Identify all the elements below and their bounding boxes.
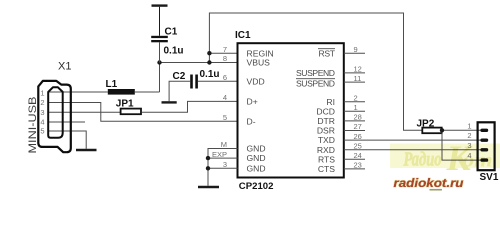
svg-text:D+: D+ [247, 97, 258, 107]
SV1 pad 2 [480, 139, 488, 142]
connector X1 inner cavity [48, 87, 63, 138]
svg-text:4: 4 [223, 93, 227, 102]
wire USB pin1 to L1 [49, 91, 108, 93]
watermark Radio Kot band [390, 138, 500, 178]
svg-text:D-: D- [247, 116, 256, 126]
svg-text:M: M [221, 140, 227, 149]
ground top (above C1) [152, 6, 168, 36]
svg-text:2: 2 [354, 94, 358, 103]
pin 23 stub [344, 168, 365, 170]
svg-text:C1: C1 [165, 27, 178, 38]
svg-text:23: 23 [354, 161, 362, 170]
pin 9 stub [344, 52, 365, 54]
svg-text:5: 5 [223, 113, 227, 122]
svg-text:DTR: DTR [317, 116, 335, 126]
svg-text:VDD: VDD [247, 76, 265, 86]
svg-text:28: 28 [354, 113, 362, 122]
svg-text:1: 1 [467, 121, 471, 130]
pin 12 stub [344, 72, 365, 74]
svg-text:IC1: IC1 [235, 30, 251, 41]
ground at USB pin5 [76, 149, 97, 151]
SV1 pad 1 [480, 129, 488, 132]
wire USB pin3 to JP1 [49, 111, 120, 113]
inductor L1 [108, 89, 135, 95]
svg-text:CP2102: CP2102 [239, 181, 274, 192]
wire C1 bottom to rail [159, 42, 161, 62]
svg-text:2: 2 [40, 98, 44, 107]
wire TXD pin 26 to SV1 pad 2 [344, 139, 481, 141]
wire JP1 to D+ pin [142, 101, 238, 112]
svg-text:24: 24 [354, 151, 362, 160]
pin 27 stub [344, 130, 365, 132]
svg-text:4: 4 [40, 118, 44, 127]
ground at IC GND pins [198, 186, 219, 188]
svg-text:от: от [463, 148, 493, 172]
svg-text:9: 9 [354, 45, 358, 54]
svg-text:TXD: TXD [318, 135, 335, 145]
svg-text:X1: X1 [58, 60, 71, 72]
wire VBUS rail from L1 riser to IC pin 8 [160, 63, 238, 93]
svg-text:RST: RST [319, 48, 336, 58]
node junction JP2 output [440, 128, 444, 132]
jumper JP1 [121, 109, 141, 115]
wire C2 right plate to VDD pin 6 [198, 80, 238, 82]
svg-text:JP2: JP2 [417, 119, 435, 130]
svg-text:5: 5 [40, 127, 44, 136]
svg-text:1: 1 [40, 89, 44, 98]
pin 2 stub [344, 101, 365, 103]
pin 24 stub [344, 158, 365, 160]
svg-text:Радио: Радио [403, 149, 442, 171]
svg-text:26: 26 [354, 132, 362, 141]
pin 28 stub [344, 120, 365, 122]
svg-text:11: 11 [354, 74, 362, 83]
wire USB pin4 stub (NC) [49, 121, 85, 123]
svg-text:SV1: SV1 [480, 172, 499, 183]
wire USB pin5 to ground [49, 131, 86, 149]
svg-text:27: 27 [354, 122, 362, 131]
svg-text:MINI-USB: MINI-USB [27, 97, 39, 154]
svg-text:1: 1 [354, 103, 358, 112]
svg-text:RTS: RTS [318, 154, 335, 164]
pin 11 stub [344, 81, 365, 83]
svg-text:EXP: EXP [212, 150, 227, 159]
svg-text:3: 3 [40, 108, 44, 117]
wire L1 to riser [135, 91, 160, 93]
capacitor C1 [151, 36, 168, 43]
node junction VBUS rail [207, 60, 211, 64]
svg-text:DCD: DCD [316, 106, 335, 116]
svg-text:3: 3 [223, 160, 227, 169]
svg-text:7: 7 [223, 45, 227, 54]
watermark underline mark [430, 189, 442, 191]
node junction VBUS/REGIN riser [207, 51, 211, 55]
svg-text:SUSPEND: SUSPEND [296, 79, 335, 89]
connector X1 MINI-USB outer shell [38, 81, 71, 152]
ground at C2 [162, 101, 177, 103]
svg-text:CTS: CTS [318, 164, 335, 174]
svg-text:JP1: JP1 [116, 99, 134, 110]
svg-text:VBUS: VBUS [247, 58, 271, 68]
wire C2 left plate to ground [169, 81, 190, 101]
svg-text:RXD: RXD [317, 145, 335, 155]
svg-text:0.1u: 0.1u [164, 46, 184, 57]
wire GND M pin [208, 149, 238, 186]
svg-text:6: 6 [223, 73, 227, 82]
svg-text:8: 8 [223, 54, 227, 63]
wire GND 3 pin [208, 167, 238, 169]
svg-text:25: 25 [354, 141, 362, 150]
wire REGIN pin 7 stub [209, 52, 237, 54]
node junction C1 / L1 riser [157, 60, 161, 64]
svg-text:GND: GND [247, 144, 266, 154]
connector SV1 box [478, 122, 495, 170]
svg-text:SUSPEND: SUSPEND [296, 68, 335, 78]
wire JP2 to SV1 pad 1 [442, 129, 481, 131]
svg-text:12: 12 [354, 65, 362, 74]
svg-text:0.1u: 0.1u [200, 69, 220, 80]
node junction GND 3 [206, 166, 210, 170]
wire USB pin2 to D- row [49, 103, 238, 122]
svg-text:DSR: DSR [317, 126, 335, 136]
wire RXD pin 25 to SV1 pad 3 [344, 149, 481, 151]
jumper JP2 [422, 128, 441, 134]
svg-text:GND: GND [247, 153, 266, 163]
svg-text:L1: L1 [106, 79, 118, 90]
SV1 pad 4 [480, 158, 488, 161]
node junction GND EXP [206, 156, 210, 160]
op IC1 CP2102 box [238, 43, 344, 177]
wire VCC riser to top and across to JP2 [209, 13, 422, 130]
svg-text:GND: GND [247, 163, 266, 173]
capacitor C2 [190, 75, 198, 89]
wire GND EXP pin [208, 157, 238, 159]
wire branch to SV1 pad 4 [442, 130, 481, 160]
svg-text:radiokot.ru: radiokot.ru [394, 178, 464, 190]
svg-text:RI: RI [326, 97, 335, 107]
SV1 pad 3 [480, 148, 488, 151]
svg-text:C2: C2 [173, 71, 186, 82]
pin 1 stub [344, 110, 365, 112]
